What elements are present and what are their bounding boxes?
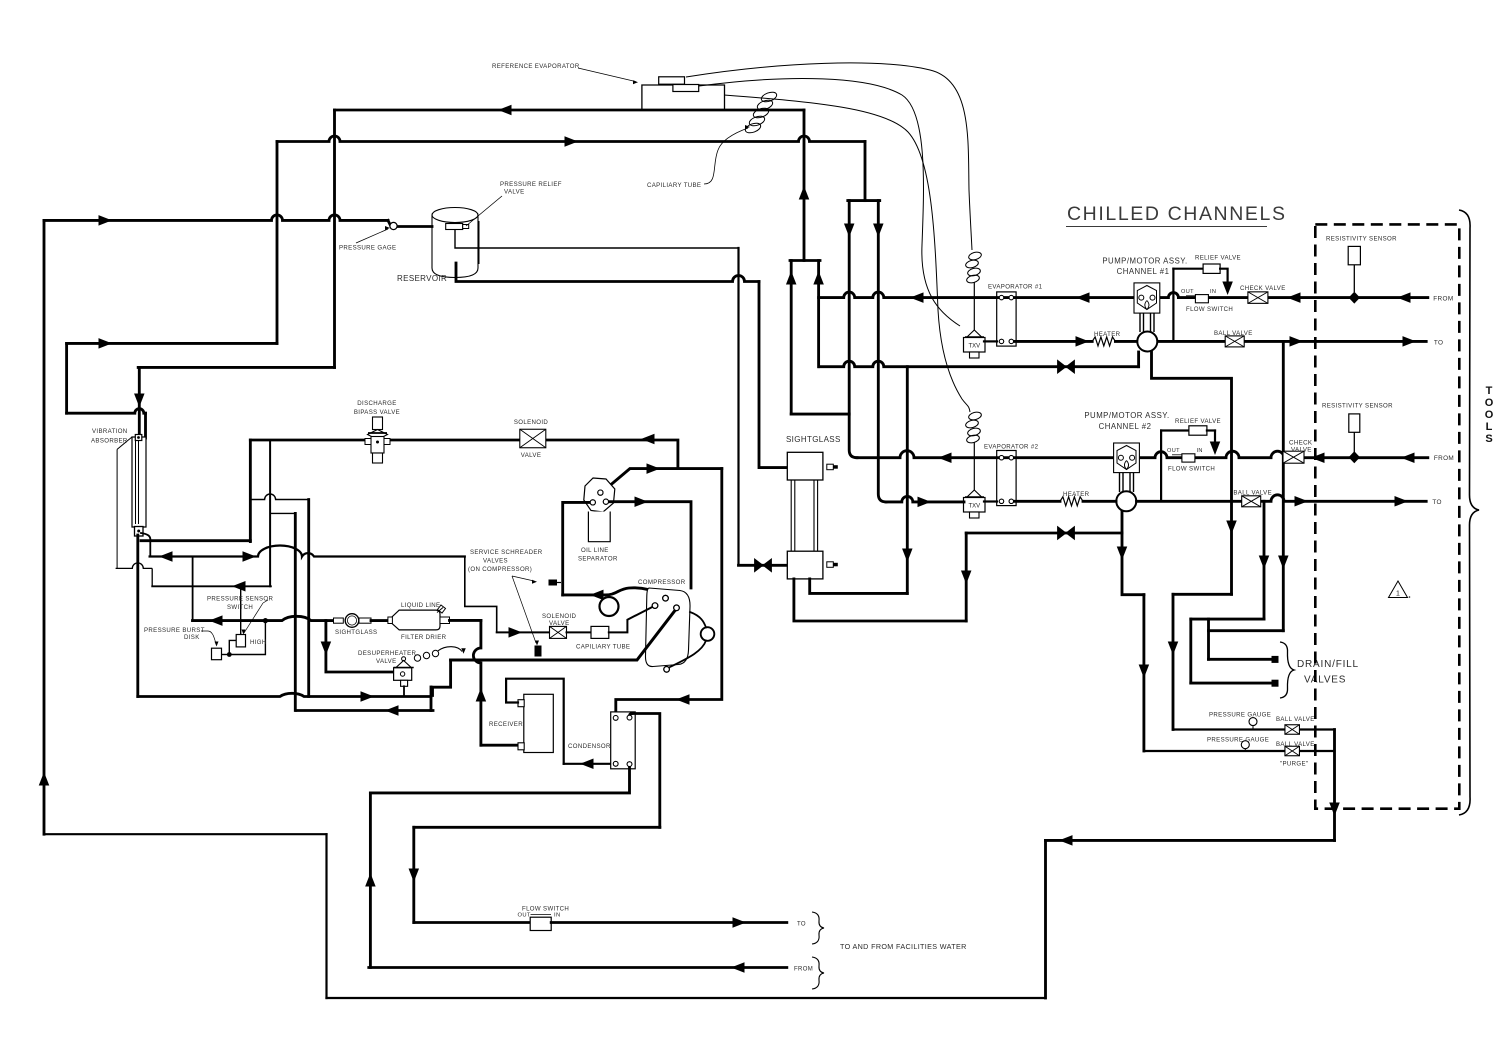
relief valve ch1 bbox=[1203, 264, 1220, 273]
wire L1 top return line to reference evaporator bbox=[335, 109, 805, 112]
svg-text:CAPILIARY TUBE: CAPILIARY TUBE bbox=[647, 182, 701, 189]
svg-text:VALVES: VALVES bbox=[483, 558, 508, 565]
svg-text:BIPASS VALVE: BIPASS VALVE bbox=[354, 409, 400, 416]
pressure gauge 2 bbox=[1241, 741, 1249, 749]
svg-text:TXV: TXV bbox=[968, 504, 980, 510]
svg-text:(ON COMPRESSOR): (ON COMPRESSOR) bbox=[468, 566, 532, 573]
capillary tube run 2 bbox=[699, 79, 960, 326]
compressor bottom port bbox=[664, 667, 670, 673]
wire absorber center pipe top bbox=[138, 367, 141, 434]
svg-text:OUT: OUT bbox=[518, 912, 531, 918]
compressor right oil loop bbox=[701, 627, 715, 641]
capillary tube run 3 bbox=[724, 95, 970, 412]
wire L3 reservoir feed line bbox=[44, 215, 388, 221]
wire absorber bottom center pipe bbox=[136, 535, 139, 697]
condensor port circles overlay bbox=[613, 716, 618, 721]
svg-text:RESERVOIR: RESERVOIR bbox=[397, 274, 447, 283]
heater ch1 bbox=[1092, 337, 1115, 346]
svg-text:SIGHTGLASS: SIGHTGLASS bbox=[786, 435, 841, 444]
drain fill valve 1 bbox=[1209, 658, 1272, 661]
wire V907 bypass riser bbox=[906, 367, 909, 594]
sightglass vessel bottom block bbox=[787, 551, 823, 579]
wire V818 drop bbox=[817, 261, 820, 367]
svg-text:DISK: DISK bbox=[184, 634, 200, 641]
wire chain mid bbox=[567, 631, 592, 633]
wire H619 link bbox=[1191, 618, 1264, 621]
wire separator left to compressor discharge bbox=[563, 502, 591, 595]
bowtie valve sightglass bbox=[755, 559, 772, 572]
separator port circles overlay bbox=[598, 490, 603, 495]
wire V1 left riser from L1 bbox=[333, 110, 336, 367]
wire condensor water return loop bbox=[414, 826, 660, 829]
wire riser H7 to liquid line bbox=[192, 557, 194, 621]
wire absorber pigtail to discharge header bbox=[141, 533, 150, 557]
svg-text:OIL LINE: OIL LINE bbox=[581, 547, 609, 554]
wire pump2 outlet ball valve line bbox=[1137, 495, 1427, 502]
wire sightglass bottom center port bbox=[794, 579, 966, 621]
svg-text:BALL VALVE: BALL VALVE bbox=[1276, 741, 1315, 748]
svg-text:S: S bbox=[1485, 433, 1492, 445]
svg-text:SEPARATOR: SEPARATOR bbox=[578, 556, 618, 563]
wire suction drop to condensor feed bbox=[616, 469, 722, 718]
wire ch2 volute pipe bbox=[1122, 509, 1144, 595]
pump2 volute bbox=[1116, 491, 1136, 511]
flow switch ch2 bbox=[1182, 454, 1195, 462]
svg-text:BALL VALVE: BALL VALVE bbox=[1233, 490, 1272, 497]
warning triangle 1 bbox=[1389, 581, 1408, 598]
sightglass small circle bbox=[345, 614, 359, 628]
wire receiver riser bbox=[473, 620, 480, 745]
evaporator 2 bbox=[997, 451, 1016, 506]
svg-text:CHECK VALVE: CHECK VALVE bbox=[1240, 285, 1286, 292]
wire pump1 outlet ball valve line bbox=[1158, 340, 1426, 343]
svg-text:HEATER: HEATER bbox=[1063, 491, 1090, 498]
schreader leader 2 bbox=[512, 576, 536, 643]
desuperheater valve bbox=[402, 657, 406, 661]
svg-text:VALVE: VALVE bbox=[504, 189, 525, 196]
wire receiver bottom link bbox=[481, 744, 519, 747]
service schreader tick on suction bbox=[535, 646, 542, 657]
schreader leader 1 bbox=[512, 576, 534, 581]
vibration absorber bottom connector bbox=[135, 527, 144, 537]
svg-text:OUT: OUT bbox=[1181, 289, 1194, 295]
wire condensor right-top loop bbox=[630, 713, 660, 827]
wire bottom loop H998 bbox=[327, 997, 1046, 999]
wire V966 bypass2 drop bbox=[965, 533, 968, 621]
wire bottom loop V326 bbox=[325, 834, 327, 998]
discharge bypass valve bbox=[373, 417, 383, 430]
pressure relief valve bbox=[446, 224, 463, 230]
wire V878 drop bbox=[878, 201, 886, 502]
wire sensor drop from junction bbox=[229, 621, 265, 655]
wire desuperheater outlet bbox=[403, 686, 405, 696]
wire V_c suction drop bbox=[294, 513, 297, 710]
capillary coil at evaporator bbox=[760, 90, 778, 103]
resistivity sensor 2 bbox=[1349, 414, 1360, 432]
wire pressure sensor line bbox=[152, 585, 271, 587]
wire V1a riser from L2 bbox=[276, 142, 279, 344]
wire TXV1 to evap1 bbox=[984, 340, 997, 342]
wire ch1 hot bypass line bbox=[819, 361, 1139, 367]
reference evaporator tab 2 bbox=[673, 85, 699, 92]
svg-text:FILTER DRIER: FILTER DRIER bbox=[401, 634, 447, 641]
svg-text:IN: IN bbox=[554, 912, 561, 918]
relief valve ch2 bbox=[1189, 426, 1207, 435]
svg-text:SOLENOID: SOLENOID bbox=[542, 613, 577, 620]
node diamond junction 2 bbox=[1349, 451, 1360, 463]
svg-text:EVAPORATOR #1: EVAPORATOR #1 bbox=[988, 284, 1043, 291]
sightglass tube bbox=[791, 480, 817, 551]
ball valve ch1 bbox=[1225, 336, 1244, 347]
wire H5 absorber shell feed bbox=[67, 409, 146, 414]
facilities water braces bbox=[812, 912, 824, 944]
wire heater to pump1 bbox=[1115, 340, 1137, 343]
svg-text:CAPILIARY TUBE: CAPILIARY TUBE bbox=[576, 644, 630, 651]
wire H6 absorber center feed bbox=[138, 366, 334, 369]
wire V738 to sightglass bowtie bbox=[737, 248, 739, 565]
svg-text:PRESSURE GAGE: PRESSURE GAGE bbox=[339, 245, 396, 252]
wire gauge line 1 bbox=[1173, 728, 1335, 730]
wire V431 link bbox=[430, 687, 433, 711]
svg-text:O: O bbox=[1485, 397, 1494, 409]
svg-text:FLOW SWITCH: FLOW SWITCH bbox=[1186, 306, 1233, 313]
wire chain to compressor bbox=[609, 606, 655, 633]
svg-text:BALL VALVE: BALL VALVE bbox=[1276, 716, 1315, 723]
node junction dot on liquid line bbox=[263, 618, 268, 623]
reference evaporator box bbox=[642, 85, 725, 110]
wire facilities riser bbox=[369, 793, 372, 968]
svg-text:SERVICE SCHREADER: SERVICE SCHREADER bbox=[470, 549, 543, 556]
svg-text:COMPRESSOR: COMPRESSOR bbox=[638, 579, 686, 586]
svg-text:HEATER: HEATER bbox=[1094, 331, 1121, 338]
compressor mid port bbox=[652, 603, 658, 609]
wire relief loop ch2 bbox=[1161, 429, 1189, 431]
wire H9 suction return header bbox=[138, 693, 431, 696]
wire V1208 drain1 drop bbox=[1207, 619, 1210, 659]
svg-text:FROM: FROM bbox=[794, 967, 813, 973]
svg-text:DISCHARGE: DISCHARGE bbox=[357, 400, 396, 407]
svg-text:CONDENSOR: CONDENSOR bbox=[568, 743, 611, 750]
wire liquid line H8 bbox=[193, 616, 334, 620]
solenoid valve small bbox=[550, 626, 567, 638]
sightglass small right stub bbox=[359, 618, 371, 623]
vibration absorber body bbox=[132, 437, 146, 527]
pump1 volute bbox=[1137, 332, 1157, 352]
wire relief return ch1 bbox=[1220, 269, 1228, 285]
wire V1283 from ball valve line bbox=[1282, 341, 1285, 630]
wire reservoir bottom line bbox=[456, 263, 759, 282]
wire desuperheater branch bbox=[326, 621, 394, 672]
drier top valve stub bbox=[437, 605, 446, 613]
wire hot gas bypass line bbox=[250, 439, 367, 442]
wire bowtie feed to sightglass bbox=[739, 564, 788, 567]
heater ch2 bbox=[1060, 497, 1083, 506]
wire V1173 gauge drop bbox=[1172, 594, 1175, 729]
oil separator canister bbox=[588, 512, 610, 542]
wire drier to receiver riser bbox=[450, 619, 481, 622]
wire H7 discharge header bbox=[150, 546, 465, 557]
pump motor assy ch2 bbox=[1114, 443, 1140, 473]
svg-text:PRESSURE RELIEF: PRESSURE RELIEF bbox=[500, 181, 562, 188]
svg-text:BALL VALVE: BALL VALVE bbox=[1214, 330, 1253, 337]
oil line separator octagon bbox=[584, 478, 615, 512]
wire schreader service line bbox=[465, 557, 497, 632]
reservoir vessel bbox=[432, 215, 478, 278]
wire TXV2 to evap2 bbox=[984, 500, 997, 502]
desuperheater capillary coils bbox=[414, 655, 420, 661]
wire V150 into absorber shell bbox=[144, 413, 147, 438]
svg-text:PRESSURE SENSOR: PRESSURE SENSOR bbox=[207, 596, 273, 603]
wire relief return arrow ch2 bbox=[1214, 431, 1216, 446]
svg-text:IN: IN bbox=[1210, 289, 1216, 295]
tools dashed enclosure bbox=[1315, 224, 1459, 808]
svg-text:IN: IN bbox=[1197, 448, 1203, 454]
svg-text:DESUPERHEATER: DESUPERHEATER bbox=[358, 650, 417, 657]
wire V0 far-left main vertical bbox=[43, 220, 46, 834]
svg-text:"PURGE": "PURGE" bbox=[1280, 761, 1308, 768]
svg-text:REFERENCE EVAPORATOR: REFERENCE EVAPORATOR bbox=[492, 63, 580, 70]
TXV valve 1 bbox=[967, 330, 982, 337]
wire V66 left drop bbox=[65, 343, 68, 413]
svg-text:O: O bbox=[1485, 409, 1494, 421]
wire evap1 supply FROM line bbox=[819, 292, 1428, 298]
svg-text:SOLENOID: SOLENOID bbox=[514, 419, 549, 426]
sightglass small left stub bbox=[334, 618, 344, 623]
wire H4 absorber feed upper bbox=[67, 342, 277, 345]
pressure gauge 1 bbox=[1249, 718, 1257, 726]
wire condensor to receiver line bbox=[564, 763, 614, 765]
svg-text:VIBRATION: VIBRATION bbox=[92, 428, 128, 435]
node junction dot burst disk bbox=[227, 652, 232, 657]
evaporator 1 bbox=[997, 292, 1016, 346]
receiver vessel bbox=[524, 694, 554, 752]
capillary coil TXV2 bbox=[968, 411, 982, 421]
compressor suction loop circle bbox=[600, 597, 619, 616]
wire FROM facilities line bbox=[369, 966, 787, 969]
svg-text:SWITCH: SWITCH bbox=[227, 604, 253, 611]
svg-text:OUT: OUT bbox=[1167, 448, 1180, 454]
node diamond junction 1 bbox=[1349, 292, 1360, 304]
evap bundle bracket bar bbox=[790, 259, 820, 262]
wire bottom loop H840 bbox=[1046, 839, 1335, 842]
wire L2 second supply line bbox=[277, 136, 865, 142]
wire relief riser ch1 bbox=[1172, 269, 1174, 342]
svg-text:FROM: FROM bbox=[1434, 455, 1454, 462]
wire to HIGH switch bbox=[229, 640, 238, 654]
wire switch top to sensor line bbox=[240, 586, 242, 634]
wire bottom loop V1045 bbox=[1044, 840, 1047, 998]
svg-text:CHANNEL #1: CHANNEL #1 bbox=[1117, 267, 1170, 276]
wire V_d suction drop 2 bbox=[307, 500, 310, 697]
svg-text:ABSORBER: ABSORBER bbox=[91, 438, 128, 445]
compressor body bbox=[645, 588, 690, 667]
svg-text:L: L bbox=[1486, 421, 1493, 433]
svg-text:FLOW SWITCH: FLOW SWITCH bbox=[1168, 466, 1215, 473]
wire evap1 outlet heater line bbox=[1015, 340, 1092, 343]
wire TO facilities line bbox=[414, 921, 530, 924]
pump motor assy ch1 bbox=[1134, 283, 1160, 313]
flow switch ch1 bbox=[1195, 295, 1208, 303]
leader burst disk bbox=[201, 631, 216, 644]
wire relief riser ch2 bbox=[1160, 431, 1162, 502]
wire coil to TXV2 bbox=[973, 442, 975, 490]
svg-text:TO: TO bbox=[797, 922, 806, 928]
bowtie valve ch1 bbox=[1058, 360, 1075, 373]
check valve ch1 bbox=[1248, 292, 1268, 304]
wire H10 lower suction header bbox=[297, 709, 433, 712]
capillary coil TXV1 bbox=[968, 251, 982, 261]
svg-text:CHANNEL #2: CHANNEL #2 bbox=[1099, 422, 1152, 431]
wire V791 drop bbox=[790, 261, 793, 415]
svg-text:PRESSURE GAUGE: PRESSURE GAUGE bbox=[1209, 712, 1271, 719]
svg-text:PRESSURE BURST: PRESSURE BURST bbox=[144, 627, 205, 634]
reservoir right wall heavy bbox=[478, 222, 480, 263]
wire compressor discharge curl bbox=[563, 588, 662, 596]
svg-text:RESISTIVITY SENSOR: RESISTIVITY SENSOR bbox=[1326, 236, 1397, 243]
ball valve purge top bbox=[1285, 725, 1300, 735]
pressure switch HIGH box bbox=[236, 635, 245, 647]
wire evap2 supply FROM line bbox=[857, 451, 1428, 458]
pressure gage bbox=[390, 222, 397, 229]
wire sightglass bottom right port bbox=[810, 579, 908, 594]
wire coil to TXV1 bbox=[973, 282, 975, 330]
drain fill brace bbox=[1280, 642, 1294, 698]
capillary tube fitting bbox=[591, 626, 609, 638]
reference evaporator leader bbox=[578, 68, 636, 82]
sightglass vessel top block bbox=[787, 452, 823, 480]
wire V849 drop bbox=[849, 201, 857, 458]
wire H630 link to V1283 bbox=[1209, 629, 1284, 632]
pressure burst disk bbox=[212, 648, 222, 660]
wire main suction line bbox=[451, 609, 677, 661]
wire relief valve to drop ch2 bbox=[1207, 429, 1215, 431]
wire relief loop ch1 bbox=[1173, 268, 1203, 270]
pump2 pipes to volute bbox=[1120, 473, 1134, 492]
compressor top port bbox=[663, 595, 669, 601]
wire suction left drop to H10 bbox=[433, 660, 451, 696]
capillary tube run 1 bbox=[686, 63, 972, 250]
svg-text:RESISTIVITY SENSOR: RESISTIVITY SENSOR bbox=[1322, 402, 1393, 409]
svg-text:VALVE: VALVE bbox=[521, 452, 542, 459]
svg-text:VALVE: VALVE bbox=[549, 620, 570, 627]
wire TO facilities line right bbox=[551, 921, 787, 924]
wire absorber loop to bypass riser bbox=[141, 539, 250, 542]
wire V2 riser to reference evaporator bbox=[803, 110, 806, 261]
wire condensor bottom outlet bbox=[370, 764, 629, 793]
wire ch2 bypass line bbox=[966, 532, 1122, 535]
svg-text:VALVE: VALVE bbox=[376, 658, 397, 665]
svg-text:TO AND FROM FACILITIES WATER: TO AND FROM FACILITIES WATER bbox=[840, 942, 967, 951]
condensor coil bbox=[611, 712, 636, 769]
TXV valve 2 bbox=[967, 490, 982, 497]
wire B bypass-to-sensor riser bbox=[269, 440, 271, 586]
wire V1191 drain2 drop bbox=[1189, 619, 1192, 683]
filter drier body bbox=[392, 610, 440, 630]
svg-text:DRAIN/FILL: DRAIN/FILL bbox=[1297, 659, 1359, 670]
wire shell outline link to sensor line bbox=[116, 563, 153, 569]
wire jog to drain gauges bbox=[1173, 593, 1232, 596]
wire heater2 to pump2 bbox=[1083, 500, 1116, 503]
wire purge line bbox=[1144, 750, 1335, 752]
evaporator port circles overlay bbox=[999, 295, 1003, 299]
pump1 pipes to volute bbox=[1140, 313, 1154, 332]
svg-text:PRESSURE GAUGE: PRESSURE GAUGE bbox=[1207, 737, 1269, 744]
wire TXV2 feed line bbox=[886, 496, 964, 501]
svg-text:1: 1 bbox=[1396, 591, 1400, 598]
wire receiver inlet from condensor bbox=[506, 679, 564, 764]
svg-text:VALVE: VALVE bbox=[1291, 447, 1312, 454]
svg-text:TO: TO bbox=[1432, 499, 1441, 506]
reference evaporator tab 1 bbox=[659, 77, 685, 84]
wire capillary chain line bbox=[497, 631, 550, 633]
flow switch bottom bbox=[530, 917, 551, 930]
desuperheater bulb curve bbox=[438, 647, 462, 652]
svg-text:RELIEF VALVE: RELIEF VALVE bbox=[1195, 255, 1241, 262]
wire to filter drier bbox=[371, 619, 392, 622]
ball valve purge bottom bbox=[1285, 746, 1300, 756]
separator ports bbox=[598, 490, 603, 495]
sightglass nipple top bbox=[827, 464, 834, 470]
svg-text:FROM: FROM bbox=[1433, 295, 1453, 302]
svg-text:VALVES: VALVES bbox=[1304, 675, 1346, 686]
svg-text:TXV: TXV bbox=[968, 344, 980, 350]
tools brace bbox=[1459, 210, 1479, 815]
svg-text:EVAPORATOR #2: EVAPORATOR #2 bbox=[984, 444, 1039, 451]
wire bypass riser A bbox=[249, 440, 252, 542]
check valve ch2 bbox=[1283, 451, 1304, 463]
bowtie valve ch2 bbox=[1058, 527, 1075, 540]
wire reservoir relief line bbox=[455, 229, 739, 248]
svg-text:HIGH: HIGH bbox=[250, 639, 267, 646]
wire H414 link bbox=[791, 413, 849, 416]
resistivity sensor 1 bbox=[1348, 246, 1360, 264]
svg-text:PUMP/MOTOR ASSY.: PUMP/MOTOR ASSY. bbox=[1084, 411, 1169, 420]
svg-text:RELIEF VALVE: RELIEF VALVE bbox=[1175, 418, 1221, 425]
compressor right port bbox=[674, 605, 680, 611]
wire separator diagonal to suction corner bbox=[602, 469, 722, 493]
wire ch2 valve drop V1264 bbox=[1263, 501, 1266, 619]
svg-text:PUMP/MOTOR ASSY.: PUMP/MOTOR ASSY. bbox=[1102, 257, 1187, 266]
wire V1143.9 purge drop bbox=[1142, 595, 1145, 751]
wire thin branch y499.5 bbox=[250, 494, 308, 500]
svg-text:CHECK: CHECK bbox=[1289, 440, 1313, 447]
sightglass nipple bottom bbox=[827, 562, 834, 568]
wire evap2 outlet to heater bbox=[1015, 500, 1060, 503]
solenoid valve main bbox=[520, 429, 546, 448]
svg-text:RECEIVER: RECEIVER bbox=[489, 721, 523, 728]
schreader tick on separator line bbox=[549, 580, 558, 586]
svg-text:SIGHTGLASS: SIGHTGLASS bbox=[335, 629, 377, 636]
svg-text:CHILLED CHANNELS: CHILLED CHANNELS bbox=[1067, 203, 1287, 225]
wire V759 to sightglass top bbox=[759, 282, 787, 468]
wire pump1 volute stubs bbox=[1137, 352, 1140, 367]
wire bottom loop H11 bbox=[44, 833, 327, 835]
svg-text:T: T bbox=[1486, 385, 1493, 397]
wire V865 from L2 bbox=[864, 142, 867, 201]
compressor port circles overlay bbox=[663, 595, 669, 601]
evap pair cap bar bbox=[848, 199, 880, 202]
svg-text:TO: TO bbox=[1434, 340, 1443, 347]
drain fill valve 2 bbox=[1191, 682, 1272, 685]
wire purge drop V1334 bbox=[1333, 730, 1336, 841]
ball valve ch2 bbox=[1242, 496, 1261, 507]
wire separator right oil return bbox=[609, 502, 692, 588]
svg-text:LIQUID LINE: LIQUID LINE bbox=[401, 602, 440, 609]
wire flow switch drop bbox=[412, 827, 415, 922]
wire thin branch y513.4 bbox=[270, 512, 295, 514]
